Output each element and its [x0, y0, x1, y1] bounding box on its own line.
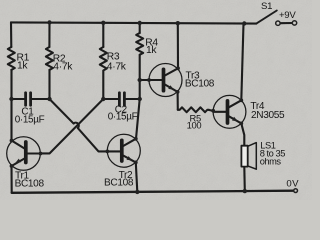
- svg-text:2N3055: 2N3055: [251, 110, 285, 121]
- svg-text:4·7k: 4·7k: [107, 61, 127, 72]
- svg-text:1k: 1k: [146, 45, 157, 56]
- svg-text:1k: 1k: [17, 61, 28, 72]
- svg-text:100: 100: [187, 120, 202, 131]
- svg-text:BC108: BC108: [104, 177, 134, 188]
- svg-text:BC108: BC108: [15, 179, 45, 190]
- svg-text:4·7k: 4·7k: [53, 61, 73, 72]
- svg-text:0·15µF: 0·15µF: [15, 115, 45, 126]
- svg-text:0·15µF: 0·15µF: [108, 112, 138, 123]
- svg-text:ohms: ohms: [260, 157, 282, 167]
- svg-text:+9V: +9V: [279, 10, 296, 21]
- svg-text:0V: 0V: [286, 179, 299, 190]
- svg-text:S1: S1: [261, 1, 272, 12]
- svg-text:BC108: BC108: [185, 79, 215, 90]
